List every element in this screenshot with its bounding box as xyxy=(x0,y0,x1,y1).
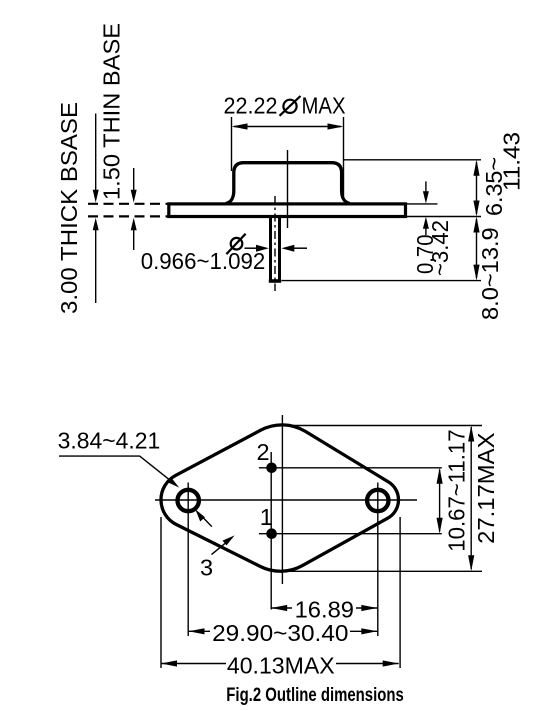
pin diameter left arrow xyxy=(245,245,269,252)
cap (dome) outline xyxy=(226,163,350,204)
3.00 THICK arrow lower xyxy=(93,218,99,303)
22.22 dim extension line left xyxy=(231,117,233,171)
flange diamond outline xyxy=(161,425,399,571)
3.00 THICK arrow upper xyxy=(93,114,99,203)
svg-text:27.17MAX: 27.17MAX xyxy=(473,432,499,544)
1.50 THIN arrow upper xyxy=(131,168,137,203)
leader arrow to hole (pin3 area) xyxy=(195,509,212,526)
diameter symbol above 0.966 text xyxy=(226,234,245,254)
flange (header base) outline xyxy=(169,204,406,217)
pin 1 dot xyxy=(266,528,277,539)
svg-text:11.43: 11.43 xyxy=(499,132,525,191)
svg-text:1.50 THIN BASE: 1.50 THIN BASE xyxy=(99,23,125,200)
top vertex extension line right xyxy=(284,425,482,427)
0.70~3.42 lower arrow xyxy=(423,217,429,235)
svg-text:29.90~30.40: 29.90~30.40 xyxy=(212,620,348,646)
svg-text:16.89: 16.89 xyxy=(295,596,354,622)
svg-text:3.84~4.21: 3.84~4.21 xyxy=(58,428,161,454)
pin-bottom extension right xyxy=(282,280,482,282)
pin bottom cap xyxy=(269,279,281,283)
right hole extension down xyxy=(377,483,379,637)
svg-text:2: 2 xyxy=(257,439,270,465)
dashed base line lower (flange bottom extension) xyxy=(88,215,168,217)
svg-text:3.00 THICK BSASE: 3.00 THICK BSASE xyxy=(56,102,82,314)
pin dashed centerline xyxy=(274,196,276,291)
left mounting hole xyxy=(178,490,199,511)
pin 2 dot xyxy=(266,463,277,474)
pin diameter right arrow xyxy=(282,245,308,252)
svg-text:0.966~1.092: 0.966~1.092 xyxy=(141,248,266,274)
0.70~3.42 upper arrow xyxy=(423,181,429,203)
22.22 dim extension line right xyxy=(343,117,345,200)
right mounting hole xyxy=(367,490,388,511)
40.13MAX dimension line xyxy=(161,660,399,666)
8.0~13.9 dimension line xyxy=(473,217,479,281)
left vertex extension down xyxy=(160,517,162,668)
27.17MAX dimension line xyxy=(468,426,474,572)
29.90~30.40 dimension line xyxy=(189,628,378,634)
dome-top extension line to right xyxy=(344,159,482,161)
right vertex extension down xyxy=(399,517,401,668)
16.89 dimension line xyxy=(271,605,377,611)
vertical centerline bottom view xyxy=(281,415,283,584)
svg-text:8.0~13.9: 8.0~13.9 xyxy=(477,227,503,320)
flange-top short extension right xyxy=(406,203,438,205)
6.35~11.43 dimension line xyxy=(473,160,479,217)
package centerline (top view) xyxy=(287,150,289,228)
pin (lead) left wall xyxy=(269,218,272,281)
pin (lead) right wall xyxy=(278,218,281,281)
diameter glyph in 22.22 label xyxy=(280,96,301,116)
leader arrow from 3 to edge xyxy=(212,535,235,554)
22.22 dimension line with arrows xyxy=(232,123,344,129)
svg-text:3: 3 xyxy=(200,555,213,581)
svg-text:Fig.2 Outline dimensions: Fig.2 Outline dimensions xyxy=(226,685,403,706)
dashed base line upper (flange top extension) xyxy=(88,203,168,205)
bottom vertex extension line right xyxy=(284,570,482,572)
svg-text:1: 1 xyxy=(260,504,273,530)
1.50 THIN arrow lower xyxy=(131,218,137,250)
pin1 extension line right xyxy=(259,533,442,535)
pin2 extension line right xyxy=(259,467,442,469)
3.84~4.21 leader xyxy=(59,456,179,488)
svg-text:MAX: MAX xyxy=(302,93,346,119)
svg-text:~3.42: ~3.42 xyxy=(427,220,453,276)
svg-text:22.22: 22.22 xyxy=(224,93,278,119)
horizontal centerline bottom view xyxy=(155,499,417,501)
flange-bottom extension right xyxy=(406,216,481,218)
left hole extension down xyxy=(187,483,189,637)
svg-text:10.67~11.17: 10.67~11.17 xyxy=(444,429,470,551)
pins vertical line xyxy=(270,452,272,610)
svg-text:40.13MAX: 40.13MAX xyxy=(227,652,335,678)
10.67~11.17 dimension line xyxy=(437,468,443,534)
